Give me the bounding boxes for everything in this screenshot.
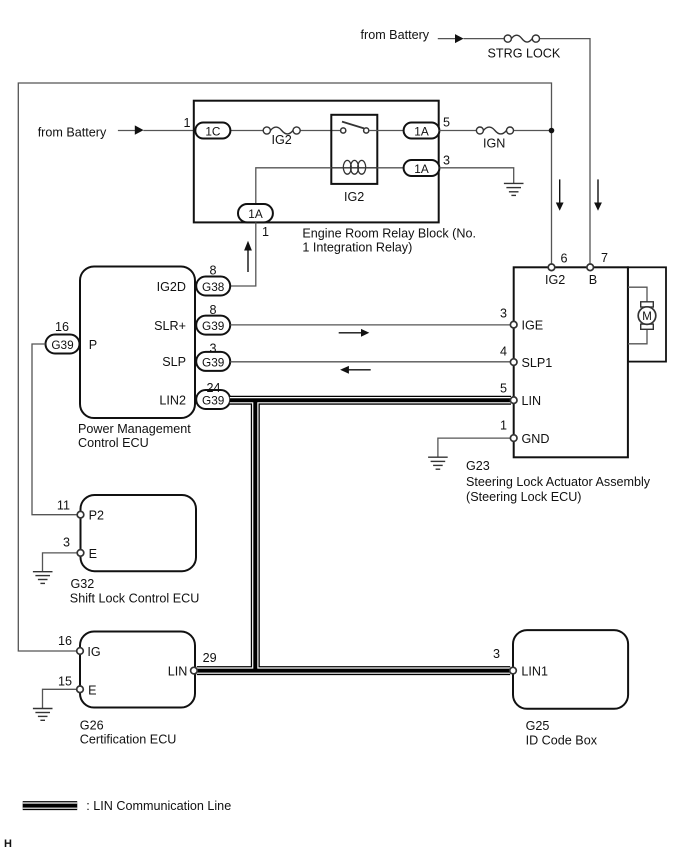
svg-text:IG2: IG2 bbox=[344, 190, 364, 204]
pin LIN bbox=[510, 397, 517, 404]
svg-text:G25: G25 bbox=[526, 719, 550, 733]
flow arrow up (IG2D) bbox=[244, 241, 252, 272]
svg-text:SLP: SLP bbox=[162, 355, 186, 369]
svg-text:G39: G39 bbox=[202, 355, 224, 369]
wire IGN fuse line bbox=[439, 130, 551, 132]
svg-text:IGE: IGE bbox=[522, 319, 544, 333]
wire from Battery to relay 1C bbox=[118, 130, 195, 132]
wire G26 E to ground bbox=[43, 689, 77, 708]
wire motor leads bbox=[628, 287, 647, 344]
fuse IGN bbox=[476, 127, 513, 134]
svg-text:from Battery: from Battery bbox=[38, 125, 107, 139]
svg-text:16: 16 bbox=[58, 634, 72, 648]
svg-text:from Battery: from Battery bbox=[361, 28, 430, 42]
svg-text:SLR+: SLR+ bbox=[154, 319, 186, 333]
svg-text:8: 8 bbox=[210, 264, 217, 278]
svg-text:G39: G39 bbox=[202, 394, 224, 408]
svg-text:G38: G38 bbox=[202, 280, 225, 294]
junction IGN/loop bbox=[549, 128, 555, 134]
svg-text:G23: G23 bbox=[466, 459, 490, 473]
ground (G26 E) bbox=[33, 709, 53, 721]
svg-text:3: 3 bbox=[493, 647, 500, 661]
svg-text:H: H bbox=[4, 838, 12, 850]
fuse IG2 bbox=[263, 127, 300, 134]
wire 1A pin1 to G38 bbox=[230, 222, 256, 286]
wire switch to 1A pin5 bbox=[369, 130, 404, 132]
connector 1C bbox=[195, 123, 230, 139]
svg-text:LIN: LIN bbox=[522, 394, 542, 408]
connector 1A pin5 bbox=[404, 123, 440, 139]
svg-text:IG2: IG2 bbox=[545, 273, 565, 287]
svg-text:15: 15 bbox=[58, 675, 72, 689]
Power Management Control ECU box bbox=[80, 267, 195, 419]
wire GND to ground bbox=[438, 438, 511, 457]
svg-text:: LIN Communication Line: : LIN Communication Line bbox=[86, 799, 231, 813]
wire SLR+ to IGE bbox=[230, 324, 510, 326]
svg-text:IGN: IGN bbox=[483, 137, 505, 151]
node battery arrow 1 bbox=[455, 34, 464, 43]
pin LIN1 bbox=[510, 667, 517, 674]
svg-text:Steering Lock Actuator Assembl: Steering Lock Actuator Assembly bbox=[466, 475, 651, 489]
connector 1A pin3 bbox=[404, 160, 440, 176]
relay coil bbox=[331, 160, 377, 174]
wire SLP to SLP1 bbox=[230, 361, 510, 363]
ground (G32 E) bbox=[33, 572, 53, 584]
svg-text:G39: G39 bbox=[202, 319, 224, 333]
svg-text:LIN1: LIN1 bbox=[521, 665, 548, 679]
svg-text:Engine Room Relay Block (No.: Engine Room Relay Block (No. bbox=[302, 226, 476, 240]
svg-text:1A: 1A bbox=[414, 125, 429, 139]
ground (G23 GND) bbox=[428, 457, 448, 469]
wire IGN output loop (y=83 line and left drop) bbox=[18, 83, 551, 651]
wire 1A pin3 to ground bbox=[439, 168, 513, 184]
svg-text:Control ECU: Control ECU bbox=[78, 436, 149, 450]
svg-text:8: 8 bbox=[210, 303, 217, 317]
svg-text:1C: 1C bbox=[205, 125, 221, 139]
svg-text:24: 24 bbox=[207, 381, 221, 395]
G32 pin circles bbox=[77, 511, 84, 556]
svg-text:3: 3 bbox=[500, 307, 507, 321]
svg-text:29: 29 bbox=[203, 651, 217, 665]
fuse STRG LOCK bbox=[504, 35, 539, 42]
wire G32 E to ground bbox=[43, 553, 79, 572]
G23 pin circles bbox=[510, 264, 593, 441]
connector 1A pin1 bottom bbox=[238, 204, 273, 222]
ground (relay pin3) bbox=[504, 183, 524, 195]
svg-text:7: 7 bbox=[601, 251, 608, 265]
svg-text:IG2: IG2 bbox=[272, 133, 292, 147]
svg-text:IG: IG bbox=[87, 645, 100, 659]
svg-text:3: 3 bbox=[63, 536, 70, 550]
svg-text:5: 5 bbox=[443, 116, 450, 130]
G26 pin circles bbox=[77, 648, 198, 693]
svg-text:1: 1 bbox=[183, 116, 190, 130]
wire from Battery (STRG LOCK feed) bbox=[438, 39, 590, 264]
motor M1 bbox=[638, 302, 656, 330]
pin B top bbox=[587, 264, 594, 271]
ID Code Box G25 bbox=[513, 630, 628, 709]
svg-text:4: 4 bbox=[500, 345, 507, 359]
Certification ECU box G26 bbox=[80, 632, 195, 708]
pin GND bbox=[510, 435, 517, 442]
wire 1C to fuse IG2 to relay bbox=[230, 130, 340, 132]
connector G39 SLR+ bbox=[196, 316, 230, 335]
node battery arrow 2 bbox=[135, 125, 144, 134]
svg-text:(Steering Lock ECU): (Steering Lock ECU) bbox=[466, 490, 581, 504]
pin SLP1 bbox=[510, 359, 517, 366]
svg-text:STRG LOCK: STRG LOCK bbox=[488, 47, 561, 61]
svg-text:3: 3 bbox=[443, 154, 450, 168]
motor housing box bbox=[628, 267, 666, 361]
svg-text:G26: G26 bbox=[80, 718, 104, 732]
Steering Lock Actuator box G23 bbox=[514, 267, 628, 457]
svg-text:IG2D: IG2D bbox=[157, 280, 186, 294]
flow arrow down (B feed) bbox=[594, 179, 602, 210]
svg-text:B: B bbox=[589, 273, 597, 287]
relay switch bbox=[341, 122, 369, 134]
svg-text:1A: 1A bbox=[414, 162, 429, 176]
relay IG2 box bbox=[331, 115, 377, 184]
svg-text:Certification ECU: Certification ECU bbox=[80, 733, 177, 747]
svg-text:1A: 1A bbox=[248, 207, 263, 221]
svg-text:1 Integration Relay): 1 Integration Relay) bbox=[302, 241, 412, 255]
connector G39 P (left) bbox=[46, 335, 80, 354]
flow arrow down (IG2 feed) bbox=[556, 179, 564, 210]
flow arrow left (SLP) bbox=[340, 366, 371, 374]
pin P2 bbox=[77, 511, 84, 518]
svg-text:E: E bbox=[89, 547, 97, 561]
svg-text:M: M bbox=[642, 311, 652, 323]
svg-text:LIN: LIN bbox=[168, 665, 188, 679]
svg-text:ID Code Box: ID Code Box bbox=[526, 733, 598, 747]
Engine Room Relay Block box bbox=[194, 101, 439, 223]
flow arrow right (SLR+) bbox=[339, 329, 370, 337]
pin IG bbox=[77, 648, 84, 655]
svg-text:Power Management: Power Management bbox=[78, 422, 191, 436]
legend LIN line sample bbox=[23, 801, 77, 810]
pin LIN bbox=[191, 667, 198, 674]
svg-text:3: 3 bbox=[210, 342, 217, 356]
svg-text:P: P bbox=[89, 338, 97, 352]
svg-text:16: 16 bbox=[55, 320, 69, 334]
svg-text:LIN2: LIN2 bbox=[159, 393, 186, 407]
pin IG2 top bbox=[548, 264, 555, 271]
svg-text:G32: G32 bbox=[71, 577, 95, 591]
connector G39 SLP bbox=[196, 352, 230, 371]
svg-text:G39: G39 bbox=[51, 338, 73, 352]
connector G38 bbox=[196, 277, 230, 296]
svg-text:1: 1 bbox=[500, 419, 507, 433]
pin E bbox=[77, 686, 84, 693]
pin IGE bbox=[510, 321, 517, 328]
svg-text:E: E bbox=[88, 683, 96, 697]
svg-text:5: 5 bbox=[500, 382, 507, 396]
wire coil circuit bbox=[256, 168, 404, 204]
svg-text:SLP1: SLP1 bbox=[522, 356, 553, 370]
LIN communication lines (thick) bbox=[197, 400, 511, 670]
Shift Lock Control ECU box G32 bbox=[81, 495, 197, 571]
connector G39 LIN2 bbox=[196, 390, 230, 409]
svg-text:P2: P2 bbox=[89, 509, 104, 523]
svg-text:1: 1 bbox=[262, 225, 269, 239]
wire P to P2 bbox=[32, 344, 78, 515]
svg-text:Shift Lock Control ECU: Shift Lock Control ECU bbox=[70, 592, 200, 606]
svg-text:6: 6 bbox=[561, 252, 568, 266]
pin E bbox=[77, 550, 84, 557]
svg-text:11: 11 bbox=[57, 499, 70, 513]
svg-text:GND: GND bbox=[522, 432, 550, 446]
